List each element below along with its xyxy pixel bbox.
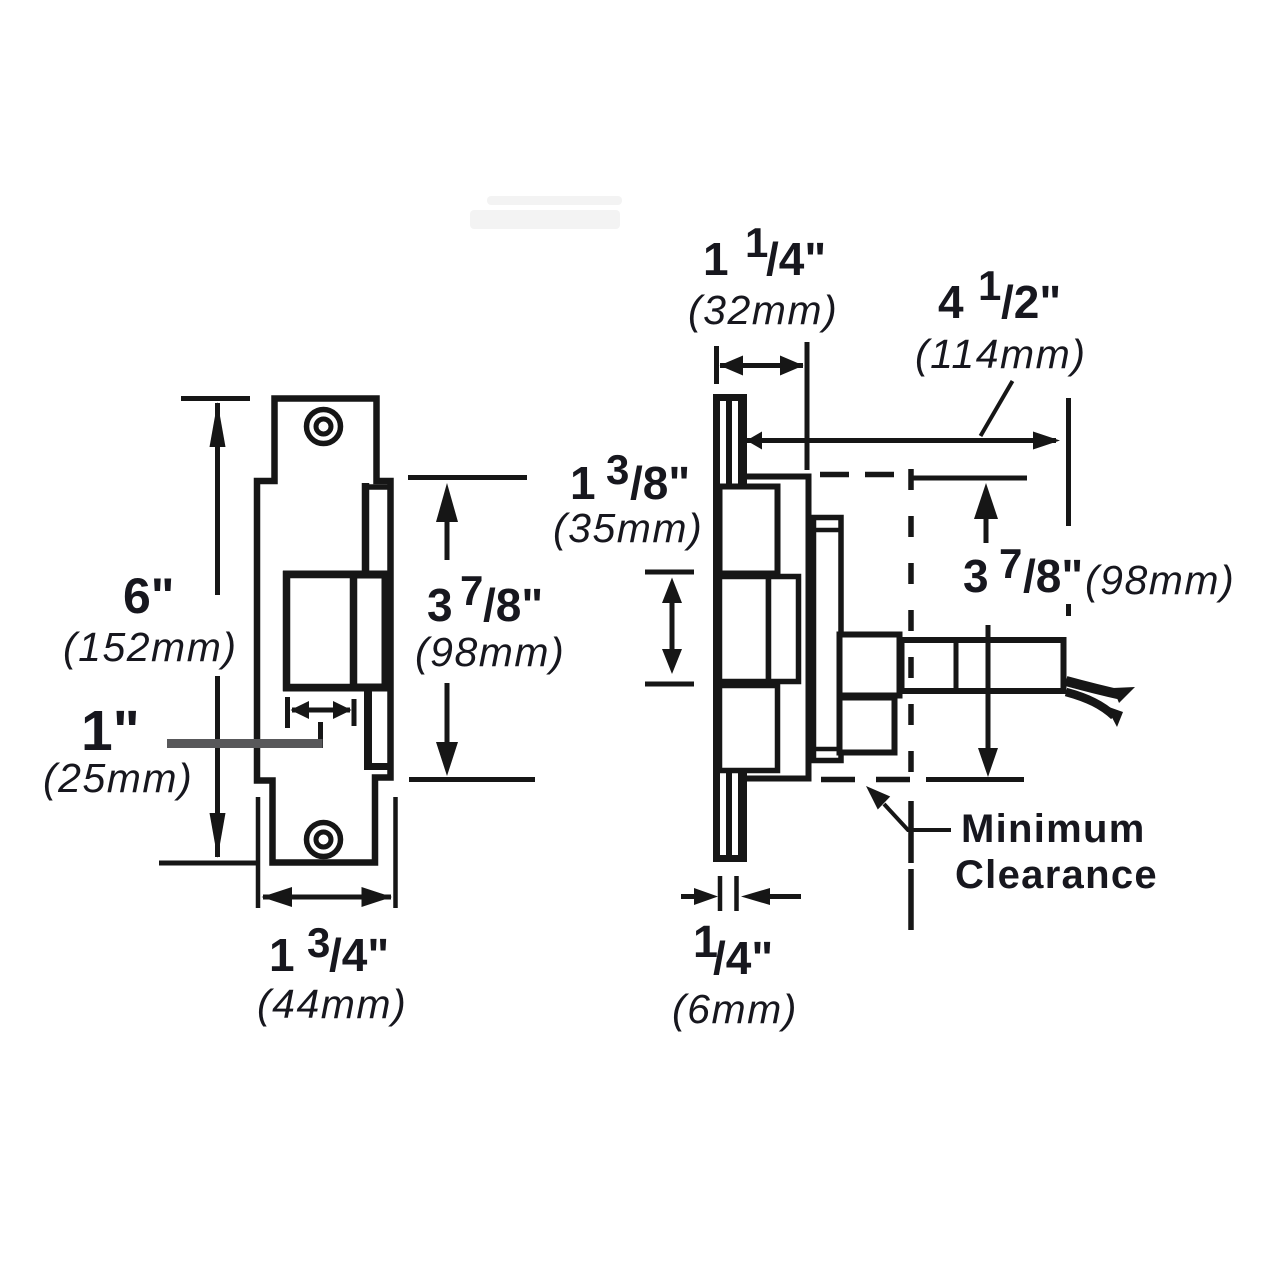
svg-text:/4": /4" <box>766 233 826 285</box>
svg-text:(35mm): (35mm) <box>553 505 703 551</box>
svg-text:(32mm): (32mm) <box>688 287 838 333</box>
svg-text:/4": /4" <box>713 932 773 984</box>
svg-text:(98mm): (98mm) <box>415 629 565 675</box>
svg-text:6": 6" <box>123 568 175 624</box>
svg-text:3: 3 <box>427 579 453 631</box>
svg-text:(44mm): (44mm) <box>257 981 407 1027</box>
svg-text:1: 1 <box>978 262 1001 309</box>
svg-text:1: 1 <box>745 219 768 266</box>
svg-text:Minimum: Minimum <box>961 807 1146 851</box>
svg-text:1: 1 <box>693 916 718 967</box>
svg-text:(152mm): (152mm) <box>63 624 238 670</box>
svg-text:3: 3 <box>307 919 330 966</box>
svg-text:1": 1" <box>81 699 140 763</box>
svg-text:(25mm): (25mm) <box>43 755 193 801</box>
svg-text:3: 3 <box>963 550 989 602</box>
svg-text:/8": /8" <box>483 579 543 631</box>
svg-text:(6mm): (6mm) <box>672 986 798 1032</box>
svg-text:/8": /8" <box>1023 550 1083 602</box>
svg-text:7: 7 <box>999 540 1022 587</box>
svg-text:/8": /8" <box>630 457 690 509</box>
svg-text:(114mm): (114mm) <box>915 331 1086 377</box>
svg-text:Clearance: Clearance <box>955 853 1158 897</box>
svg-text:(98mm): (98mm) <box>1085 557 1235 603</box>
svg-text:4: 4 <box>938 276 964 328</box>
svg-text:1: 1 <box>703 233 729 285</box>
svg-text:/2": /2" <box>1001 276 1061 328</box>
svg-text:1: 1 <box>570 457 596 509</box>
svg-text:3: 3 <box>606 446 629 493</box>
svg-text:1: 1 <box>269 929 295 981</box>
svg-text:/4": /4" <box>329 929 389 981</box>
svg-text:7: 7 <box>460 567 483 614</box>
